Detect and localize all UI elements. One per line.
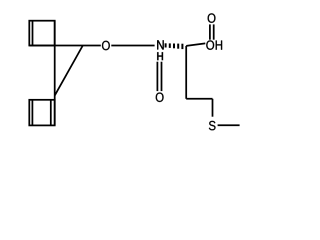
ring B right double bond inner line <box>50 100 52 126</box>
ring B (bottom square, benzo ring) <box>29 100 54 126</box>
wire: long vertical C9a-C4b bond <box>54 21 56 126</box>
bond alpha C to COOH <box>186 43 205 46</box>
side chain horizontal bond <box>186 98 212 100</box>
ring A double bond inner line <box>32 21 34 46</box>
carbamate C=O double bond <box>156 62 158 91</box>
atom label N (N1) <box>157 40 163 49</box>
S-CH3 bond <box>218 124 240 126</box>
atom label O (O2) <box>156 93 164 102</box>
hashed wedge bond N to alpha C <box>166 43 183 49</box>
atom label O (O4) <box>206 40 214 49</box>
alpha carbon vertical bond <box>185 46 187 99</box>
atom label H (H4) <box>216 41 222 50</box>
atom label O (O3) <box>208 13 216 22</box>
wire: O to N bond <box>111 45 154 47</box>
atom label S (S1) <box>209 121 216 130</box>
ring A (top square, benzo ring) <box>29 21 54 46</box>
ring B left double bond inner line <box>31 100 33 126</box>
atom label O (O1) <box>102 41 110 50</box>
wire: diagonal CH2 to ring bond <box>55 46 83 96</box>
atom label H (H1) <box>157 52 163 60</box>
COOH C=O double bond <box>209 24 211 39</box>
side chain vertical bond to S <box>212 99 214 117</box>
wire: main horizontal bond row (C9-CH2-O) <box>29 45 101 47</box>
